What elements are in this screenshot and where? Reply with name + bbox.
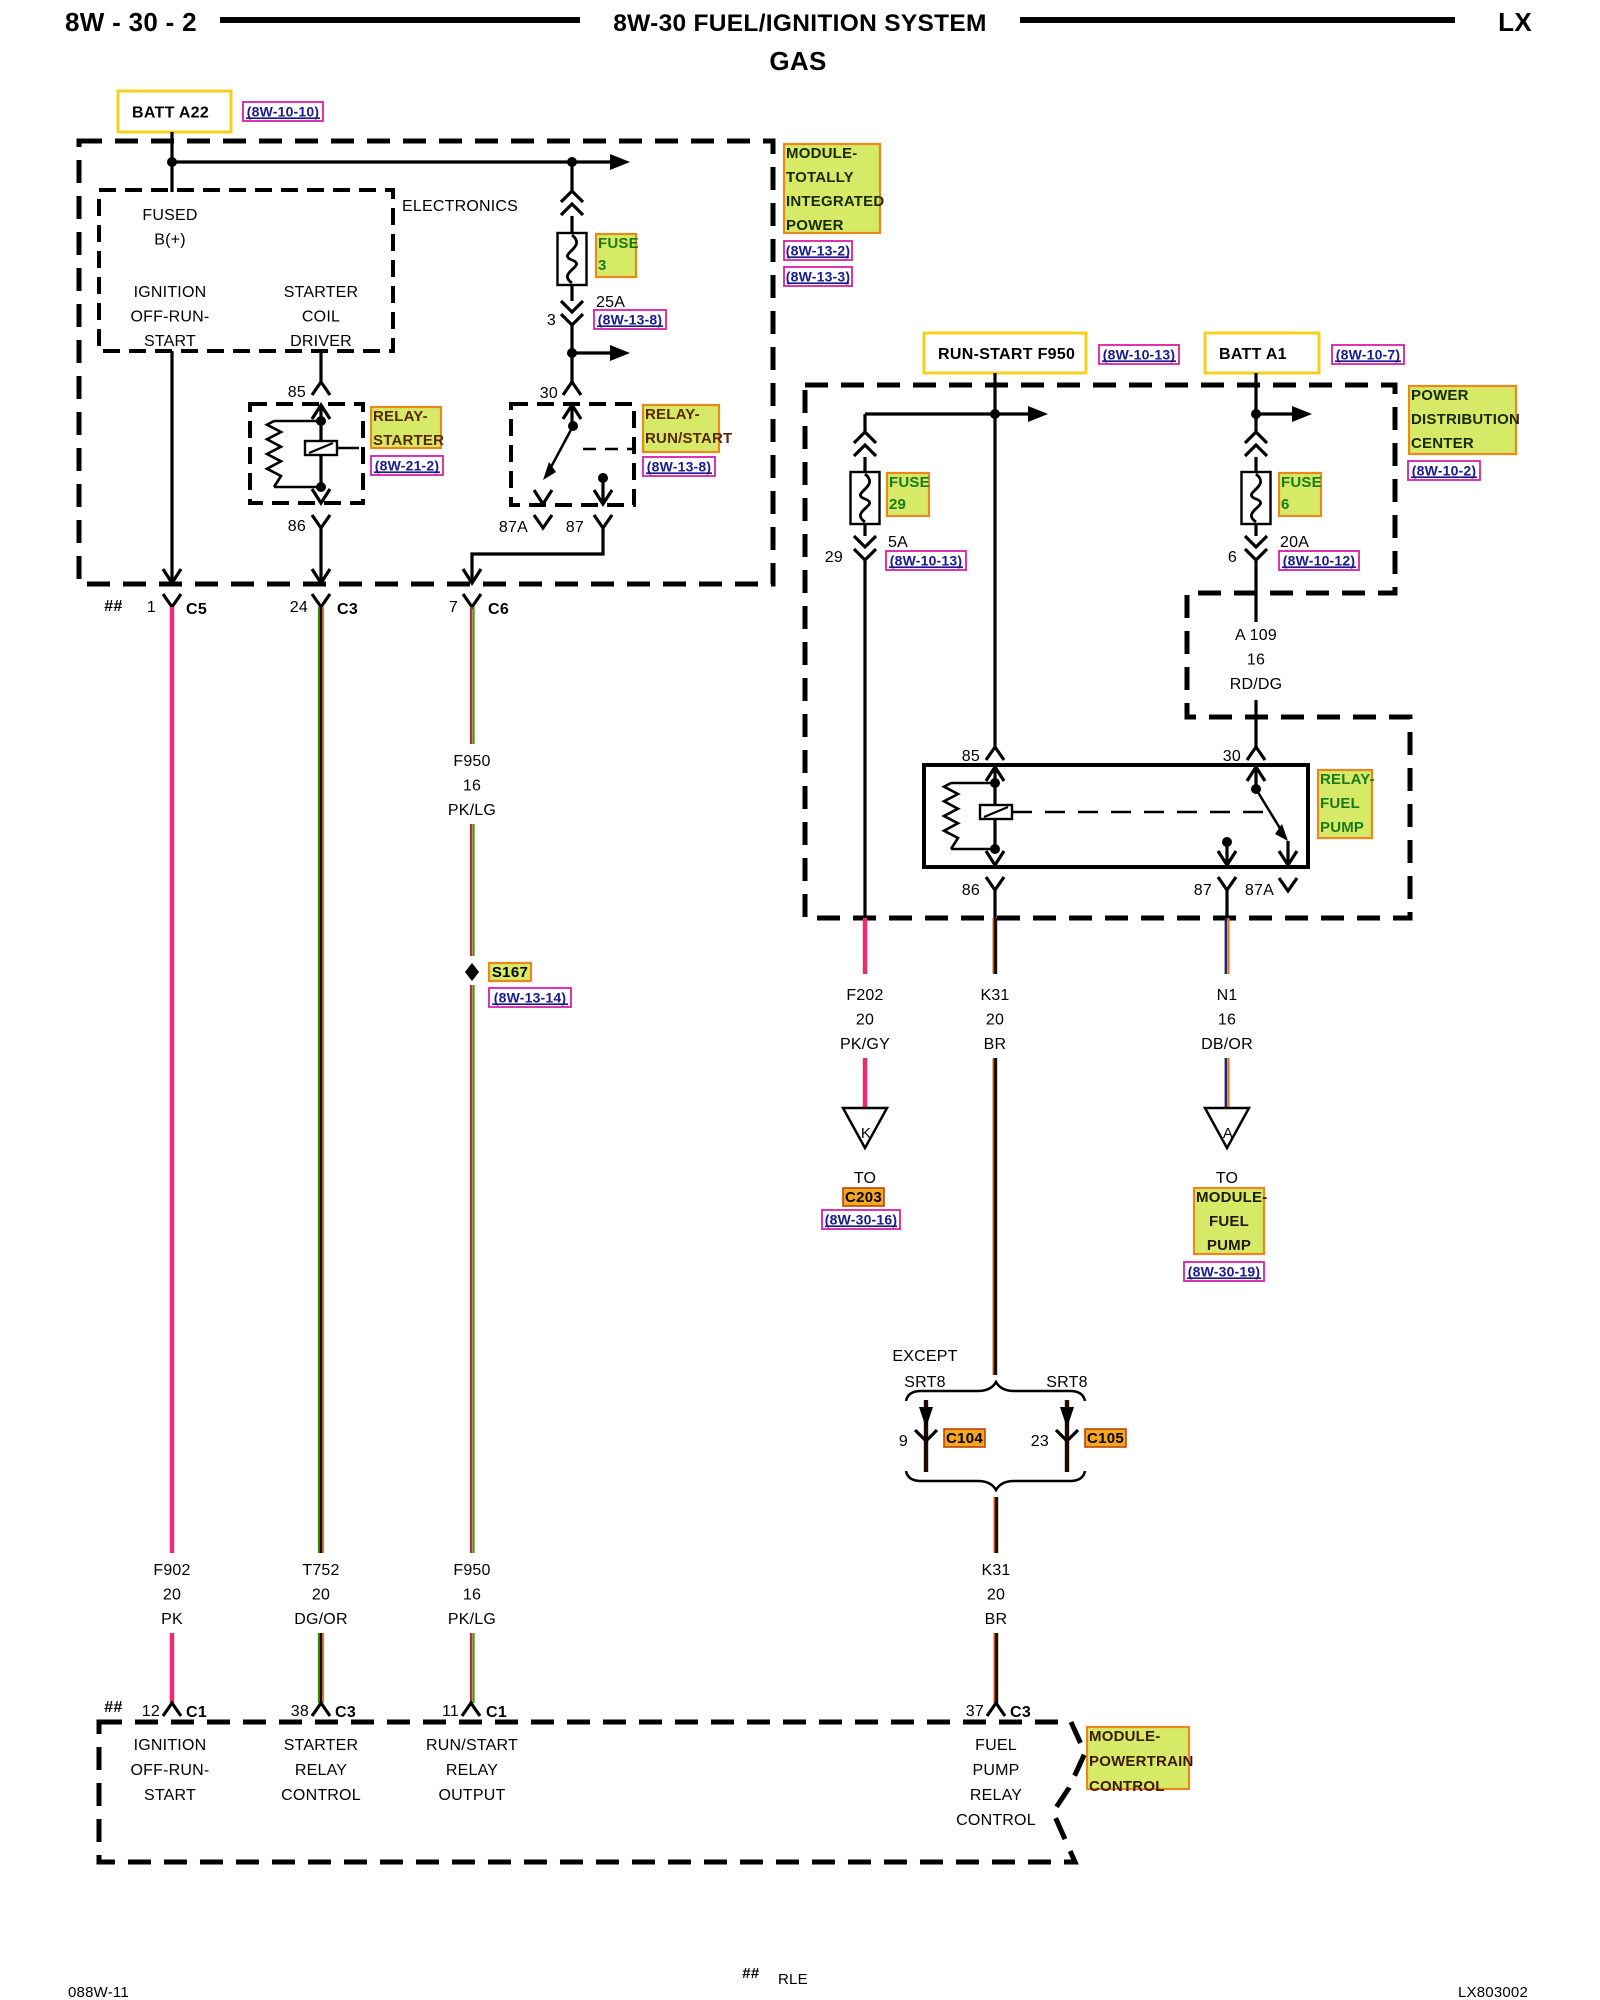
pin 87 stub — [598, 473, 608, 483]
svg-text:RUN-START F950: RUN-START F950 — [938, 346, 1075, 363]
brace top — [906, 1382, 1085, 1401]
svg-text:K31: K31 — [981, 1562, 1010, 1579]
svg-text:OFF-RUN-: OFF-RUN- — [131, 1762, 210, 1779]
svg-text:C5: C5 — [186, 601, 207, 618]
svg-text:K: K — [861, 1125, 871, 1142]
wire F950 PK/LG lower — [471, 985, 474, 1553]
svg-text:STARTER: STARTER — [284, 284, 359, 301]
svg-text:30: 30 — [1223, 748, 1241, 765]
svg-text:86: 86 — [288, 518, 306, 535]
link 8W-13-8 — [594, 310, 666, 329]
wire branch C104 — [924, 1400, 928, 1472]
svg-text:088W-11: 088W-11 — [68, 1984, 129, 2000]
svg-text:C1: C1 — [186, 1704, 207, 1721]
connector C1 pin 12 — [163, 1703, 181, 1716]
module PCM dashed box — [99, 1722, 1085, 1862]
label IGNITION OFF-RUN-START pcm — [131, 1737, 210, 1804]
svg-text:START: START — [144, 333, 196, 350]
svg-text:86: 86 — [962, 882, 980, 899]
svg-text:TOTALLY: TOTALLY — [786, 169, 854, 186]
svg-text:C3: C3 — [335, 1704, 356, 1721]
svg-text:29: 29 — [889, 496, 906, 513]
fuse F8 — [558, 233, 587, 285]
svg-text:8W-30 FUEL/IGNITION SYSTEM: 8W-30 FUEL/IGNITION SYSTEM — [613, 10, 986, 37]
svg-text:87A: 87A — [1245, 882, 1274, 899]
svg-text:11: 11 — [442, 1703, 459, 1720]
svg-text:23: 23 — [1031, 1433, 1049, 1450]
label K31 20 BR lower — [981, 1562, 1010, 1628]
label MODULE-POWERTRAIN CONTROL — [1087, 1727, 1194, 1795]
pin 87 arrow — [594, 490, 612, 504]
arrow battA1 continues — [1256, 412, 1294, 415]
wire below fuse6 — [1254, 524, 1257, 536]
connector C3 pin 37 — [987, 1703, 1005, 1716]
svg-text:BR: BR — [985, 1611, 1008, 1628]
arrow exit C6 — [463, 569, 481, 583]
label RELAY-RUN/START — [643, 405, 732, 452]
relay starter coil box — [305, 441, 337, 455]
pin 87A open fork fp — [1279, 878, 1297, 891]
fuel pump coil box — [980, 805, 1012, 819]
label A109 16 RD/DG — [1230, 627, 1283, 693]
svg-text:FUSE: FUSE — [598, 235, 639, 252]
label F950 16 PK/LG lower — [448, 1562, 496, 1628]
relay run/start pin30 arrow — [563, 405, 581, 419]
label F202 20 PK/GY — [840, 987, 890, 1053]
svg-text:CONTROL: CONTROL — [1089, 1778, 1165, 1795]
svg-text:STARTER: STARTER — [284, 1737, 359, 1754]
relay contact dashed line — [583, 448, 633, 451]
svg-text:30: 30 — [540, 385, 558, 402]
svg-text:RELAY-: RELAY- — [373, 408, 428, 425]
svg-text:3: 3 — [547, 312, 556, 329]
node RUN-START F950 — [924, 333, 1086, 373]
label FUSED B(+) — [142, 207, 197, 249]
svg-text:9: 9 — [899, 1433, 908, 1450]
svg-text:B(+): B(+) — [154, 232, 185, 249]
wire branch C105 — [1065, 1400, 1069, 1472]
wire 86 to PDC bottom — [993, 890, 996, 918]
wire coil top to resistor — [274, 420, 321, 423]
wire below fuse — [570, 285, 573, 301]
wire starter coil driver down — [319, 351, 322, 382]
label IGNITION OFF-RUN-START — [131, 284, 210, 350]
label F950 16 PK/LG upper — [448, 753, 496, 819]
module PDC dashed box — [805, 385, 1410, 918]
svg-text:RELAY: RELAY — [295, 1762, 347, 1779]
svg-text:N1: N1 — [1217, 987, 1238, 1004]
label N1 16 DB/OR — [1201, 987, 1253, 1053]
svg-text:12: 12 — [142, 1703, 160, 1720]
svg-text:COIL: COIL — [302, 309, 340, 326]
wire N1 DB/OR upper — [1226, 918, 1229, 974]
arrow tap continues — [610, 345, 630, 361]
connector C5 pin 1 — [163, 594, 181, 607]
svg-text:87: 87 — [566, 519, 584, 536]
node switch pivot — [568, 421, 578, 431]
svg-text:F902: F902 — [153, 1562, 190, 1579]
wire to fuse29 — [865, 412, 995, 415]
svg-text:C104: C104 — [946, 1430, 983, 1447]
svg-text:FUEL: FUEL — [1209, 1213, 1249, 1230]
svg-text:LX: LX — [1498, 7, 1532, 37]
pin 86 fork fp — [986, 877, 1004, 890]
wire K31 BR to split — [993, 1058, 995, 1375]
svg-text:SRT8: SRT8 — [904, 1374, 945, 1391]
connector C3 pin 38 — [312, 1703, 330, 1716]
wire BATT A1 down — [1254, 373, 1257, 433]
svg-text:DG/OR: DG/OR — [294, 1611, 347, 1628]
svg-text:RELAY: RELAY — [970, 1787, 1022, 1804]
svg-text:##: ## — [742, 1965, 760, 1982]
svg-text:8W - 30 - 2: 8W - 30 - 2 — [65, 7, 197, 37]
svg-text:OUTPUT: OUTPUT — [439, 1787, 506, 1804]
svg-text:(8W-30-19): (8W-30-19) — [1188, 1264, 1261, 1280]
svg-text:(8W-13-8): (8W-13-8) — [647, 459, 712, 475]
wire below fuse29 — [863, 524, 866, 536]
node run/start tap — [567, 348, 577, 358]
label RUN/START RELAY OUTPUT — [426, 1737, 518, 1804]
splice S167 — [465, 963, 479, 981]
svg-text:(8W-13-2): (8W-13-2) — [786, 243, 851, 259]
inner dashed box FUSED B(+) / drivers — [99, 190, 393, 351]
pin 30 fork fuel pump — [1247, 747, 1265, 760]
fuel pump pin30 arrow — [1247, 767, 1265, 781]
svg-text:6: 6 — [1228, 549, 1237, 566]
svg-text:IGNITION: IGNITION — [134, 1737, 207, 1754]
svg-text:C3: C3 — [337, 601, 358, 618]
svg-text:TO: TO — [854, 1170, 876, 1187]
svg-text:PK: PK — [161, 1611, 183, 1628]
svg-text:(8W-10-12): (8W-10-12) — [1283, 553, 1356, 569]
wire fused B+ down — [170, 351, 173, 582]
label FUEL PUMP RELAY CONTROL — [956, 1737, 1036, 1829]
fp switch arm to 87A — [1256, 789, 1281, 830]
brace bottom — [906, 1471, 1085, 1490]
svg-text:FUSE: FUSE — [1281, 474, 1322, 491]
svg-text:CONTROL: CONTROL — [281, 1787, 361, 1804]
link 8W-10-10 — [243, 102, 323, 121]
label MODULE-TOTALLY INTEGRATED POWER — [784, 144, 884, 234]
svg-text:16: 16 — [463, 1587, 481, 1604]
wire RUN-START F950 down — [993, 373, 996, 747]
svg-text:(8W-13-3): (8W-13-3) — [786, 269, 851, 285]
svg-text:PK/LG: PK/LG — [448, 1611, 496, 1628]
svg-text:25A: 25A — [596, 294, 625, 311]
wire K31 BR lower — [994, 1497, 996, 1553]
svg-text:38: 38 — [291, 1703, 309, 1720]
svg-text:C203: C203 — [845, 1189, 882, 1206]
pin 30 connector fork — [563, 382, 581, 395]
svg-text:RLE: RLE — [778, 1971, 808, 1988]
fuse F6 — [1242, 472, 1271, 524]
relay R-STARTER dashed box — [250, 404, 363, 503]
svg-text:MODULE-: MODULE- — [1196, 1189, 1267, 1206]
wire A109 lower — [1254, 700, 1257, 747]
svg-text:85: 85 — [288, 384, 306, 401]
svg-text:3: 3 — [598, 257, 607, 274]
label FUSE 29 — [887, 473, 930, 516]
connector C1 pin 11 — [462, 1703, 480, 1716]
chevrons pin 29 — [854, 536, 876, 547]
node coil bottom — [316, 482, 326, 492]
svg-text:20A: 20A — [1280, 534, 1309, 551]
arrow bus continues — [610, 154, 630, 170]
arrow exit C3 — [312, 569, 330, 583]
link 8W-30-19 — [1184, 1262, 1264, 1281]
arrow run-start continues — [995, 412, 1030, 415]
wire F950 PK/LG upper — [471, 607, 474, 744]
pin 87 fork fp — [1218, 877, 1236, 890]
svg-text:IGNITION: IGNITION — [134, 284, 207, 301]
node fp coil top — [990, 778, 1000, 788]
svg-text:PK/LG: PK/LG — [448, 802, 496, 819]
header rule right — [1020, 17, 1455, 23]
fuel pump pin85 arrow — [986, 767, 1004, 781]
svg-text:(8W-10-7): (8W-10-7) — [1336, 347, 1401, 363]
svg-text:24: 24 — [290, 599, 308, 616]
pin 87 connector fork — [594, 515, 612, 528]
svg-text:RUN/START: RUN/START — [426, 1737, 518, 1754]
arrow exit C5 — [163, 569, 181, 583]
label STARTER COIL DRIVER — [284, 284, 359, 350]
svg-text:20: 20 — [987, 1587, 1005, 1604]
svg-text:16: 16 — [1247, 652, 1265, 669]
svg-text:MODULE-: MODULE- — [1089, 1728, 1160, 1745]
svg-text:FUEL: FUEL — [975, 1737, 1017, 1754]
inline connector chevrons upper — [561, 191, 583, 202]
svg-text:START: START — [144, 1787, 196, 1804]
label RELAY-FUEL PUMP — [1318, 770, 1375, 838]
link 8W-13-14 — [489, 988, 571, 1007]
connector C3 pin 24 — [312, 594, 330, 607]
node fuse8 tap junction — [567, 157, 577, 167]
svg-text:7: 7 — [449, 599, 458, 616]
svg-text:20: 20 — [986, 1012, 1004, 1029]
wire A109 upper — [1254, 560, 1257, 622]
node coil top — [316, 416, 326, 426]
wire 87 to C6 exit — [472, 528, 603, 582]
relay fp contact dashed line — [1012, 811, 1268, 814]
link 8W-10-12 — [1279, 551, 1359, 570]
label T752 20 DG/OR — [294, 1562, 347, 1628]
svg-text:(8W-10-13): (8W-10-13) — [1103, 347, 1176, 363]
svg-text:PUMP: PUMP — [972, 1762, 1019, 1779]
inline connector chevrons lower, pin 3 — [561, 301, 583, 312]
relay R-RUN/START dashed box — [511, 404, 634, 505]
svg-text:A 109: A 109 — [1235, 627, 1277, 644]
relay R-FUEL PUMP box — [924, 765, 1308, 867]
label POWER DISTRIBUTION CENTER — [1409, 386, 1520, 454]
wire coil box stub — [337, 447, 359, 450]
svg-text:POWER: POWER — [786, 217, 844, 234]
svg-text:CENTER: CENTER — [1411, 435, 1474, 452]
svg-text:20: 20 — [163, 1587, 181, 1604]
pin 85 fork fuel pump — [986, 747, 1004, 760]
svg-text:87A: 87A — [499, 519, 528, 536]
wire tap arrow — [572, 351, 612, 354]
relay starter pin85 arrow — [312, 405, 330, 419]
svg-text:FUSED: FUSED — [142, 207, 197, 224]
svg-text:37: 37 — [966, 1703, 984, 1720]
svg-text:BATT A22: BATT A22 — [132, 105, 209, 122]
node BATT A1 — [1205, 333, 1319, 373]
svg-text:C105: C105 — [1087, 1430, 1124, 1447]
link 8W-30-16 — [822, 1210, 900, 1229]
link 8W-10-2 — [1408, 461, 1480, 480]
svg-text:RELAY-: RELAY- — [645, 406, 700, 423]
node fp switch pivot — [1251, 784, 1261, 794]
svg-text:6: 6 — [1281, 496, 1290, 513]
svg-text:(8W-13-8): (8W-13-8) — [598, 312, 663, 328]
wire fuse8 branch upper — [570, 162, 573, 192]
svg-text:RD/DG: RD/DG — [1230, 676, 1283, 693]
svg-text:DISTRIBUTION: DISTRIBUTION — [1411, 411, 1520, 428]
relay starter pin86 arrow — [312, 489, 330, 503]
header rule left — [220, 17, 580, 23]
svg-text:RUN/START: RUN/START — [645, 430, 732, 447]
svg-text:LX803002: LX803002 — [1458, 1984, 1528, 2000]
svg-text:POWER: POWER — [1411, 387, 1469, 404]
svg-text:F950: F950 — [453, 1562, 490, 1579]
svg-text:1: 1 — [147, 599, 156, 616]
wire resistor bottom — [274, 486, 321, 489]
module TIPM dashed box — [79, 141, 773, 584]
link 8W-13-8 second — [643, 457, 715, 476]
svg-text:MODULE-: MODULE- — [786, 145, 857, 162]
svg-text:20: 20 — [856, 1012, 874, 1029]
svg-text:C1: C1 — [486, 1704, 507, 1721]
wire 86 down to TIPM edge — [319, 528, 322, 582]
node run-start junction — [990, 409, 1000, 419]
svg-text:5A: 5A — [888, 534, 908, 551]
label K31 20 BR — [980, 987, 1009, 1053]
svg-text:29: 29 — [825, 549, 843, 566]
svg-text:INTEGRATED: INTEGRATED — [786, 193, 884, 210]
wire F950 PK/LG mid — [471, 824, 474, 956]
node fp coil bottom — [990, 844, 1000, 854]
connector C105 — [1085, 1429, 1126, 1447]
pin 87A connector fork — [534, 515, 552, 528]
svg-text:DB/OR: DB/OR — [1201, 1036, 1253, 1053]
svg-text:85: 85 — [962, 748, 980, 765]
pin 87A stub fp — [1286, 841, 1289, 865]
svg-text:16: 16 — [1218, 1012, 1236, 1029]
svg-text:##: ## — [104, 598, 122, 615]
svg-text:RELAY-: RELAY- — [1320, 771, 1375, 788]
off-page triangle A — [1205, 1108, 1249, 1148]
svg-text:(8W-10-13): (8W-10-13) — [890, 553, 963, 569]
svg-text:K31: K31 — [980, 987, 1009, 1004]
off-page triangle K — [843, 1108, 887, 1148]
fuse F29 — [851, 472, 880, 524]
svg-text:F950: F950 — [453, 753, 490, 770]
chevrons pin 6 — [1245, 536, 1267, 547]
link 8W-10-13 fuse29 — [886, 551, 966, 570]
inline chevrons above fuse6 — [1245, 432, 1267, 443]
label F902 20 PK — [153, 1562, 190, 1628]
wire K31 BR upper — [993, 918, 995, 974]
svg-text:PK/GY: PK/GY — [840, 1036, 890, 1053]
label RELAY-STARTER — [371, 407, 444, 449]
label FUSE 8 — [596, 234, 639, 277]
wire F902 PK — [170, 607, 175, 1553]
link 8W-13-3 — [784, 267, 852, 286]
inline chevrons above fuse29 — [854, 432, 876, 443]
svg-text:FUEL: FUEL — [1320, 795, 1360, 812]
node bus junction — [167, 157, 177, 167]
svg-text:PUMP: PUMP — [1207, 1237, 1251, 1254]
wire fuse29 to PDC bottom — [863, 560, 866, 918]
node BATT A22 — [118, 91, 231, 132]
pin 87A arrow — [534, 490, 552, 504]
svg-text:RELAY: RELAY — [446, 1762, 498, 1779]
node battA1 junction — [1251, 409, 1261, 419]
connector C104 — [944, 1429, 985, 1447]
svg-text:C6: C6 — [488, 601, 509, 618]
wire BATT A22 to bus — [170, 132, 173, 192]
svg-text:BR: BR — [984, 1036, 1007, 1053]
connector C6 pin 7 — [463, 594, 481, 607]
link 8W-10-13 — [1099, 345, 1179, 364]
svg-text:TO: TO — [1216, 1170, 1238, 1187]
pin 85 connector fork — [312, 382, 330, 395]
svg-text:16: 16 — [463, 778, 481, 795]
svg-text:##: ## — [104, 1699, 122, 1716]
svg-text:(8W-13-14): (8W-13-14) — [494, 990, 567, 1006]
wire F202 PK/GY upper — [863, 918, 868, 974]
svg-text:OFF-RUN-: OFF-RUN- — [131, 309, 210, 326]
svg-text:(8W-10-10): (8W-10-10) — [247, 104, 320, 120]
label STARTER RELAY CONTROL — [281, 1737, 361, 1804]
pin 87 stub fp — [1222, 837, 1232, 847]
resistor relay-starter coil — [267, 421, 281, 487]
svg-text:20: 20 — [312, 1587, 330, 1604]
pin 86 connector fork — [312, 515, 330, 528]
link 8W-10-7 — [1332, 345, 1404, 364]
svg-text:GAS: GAS — [769, 46, 826, 76]
svg-text:C3: C3 — [1010, 1704, 1031, 1721]
svg-text:F202: F202 — [846, 987, 883, 1004]
resistor fuel pump coil — [944, 783, 958, 849]
svg-text:BATT A1: BATT A1 — [1219, 346, 1287, 363]
link 8W-13-2 — [784, 241, 852, 260]
svg-text:(8W-21-2): (8W-21-2) — [375, 458, 440, 474]
switch arm to 87A — [550, 426, 573, 469]
svg-text:DRIVER: DRIVER — [290, 333, 352, 350]
svg-text:SRT8: SRT8 — [1046, 1374, 1087, 1391]
svg-text:FUSE: FUSE — [889, 474, 930, 491]
svg-text:A: A — [1223, 1125, 1233, 1142]
svg-text:(8W-30-16): (8W-30-16) — [825, 1212, 898, 1228]
wire 87 to PDC bottom — [1225, 890, 1228, 918]
svg-text:87: 87 — [1194, 882, 1212, 899]
fuel pump pin86 arrow — [986, 851, 1004, 865]
svg-text:STARTER: STARTER — [373, 432, 444, 449]
svg-text:EXCEPT: EXCEPT — [892, 1348, 957, 1365]
svg-text:(8W-10-2): (8W-10-2) — [1412, 463, 1477, 479]
svg-text:T752: T752 — [302, 1562, 339, 1579]
svg-text:CONTROL: CONTROL — [956, 1812, 1036, 1829]
svg-text:ELECTRONICS: ELECTRONICS — [402, 198, 518, 215]
link 8W-21-2 — [371, 456, 443, 475]
label FUSE 6 — [1279, 473, 1322, 516]
wire T752 DG/OR — [319, 607, 323, 1553]
svg-text:S167: S167 — [492, 964, 528, 981]
svg-text:PUMP: PUMP — [1320, 819, 1364, 836]
svg-text:POWERTRAIN: POWERTRAIN — [1089, 1753, 1194, 1770]
wire bus horizontal — [172, 160, 612, 163]
